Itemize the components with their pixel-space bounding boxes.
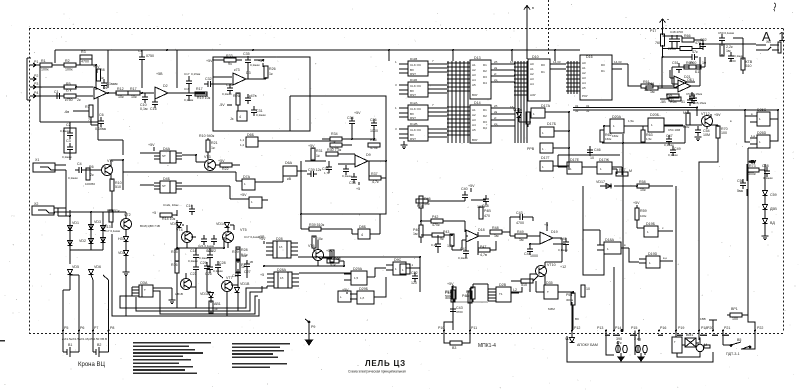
IC D6A (283, 161, 297, 181)
svg-text:С49: С49 (674, 147, 681, 151)
IC D6B (238, 133, 268, 147)
svg-text:D12А: D12А (410, 101, 418, 105)
svg-text:R16: R16 (171, 263, 178, 267)
svg-text:1ВВ: 1ВВ (700, 317, 706, 321)
svg-text:1,5: 1,5 (354, 276, 359, 280)
wires C40 cluster (428, 200, 486, 201)
svg-text:0,1мкм: 0,1мкм (250, 63, 260, 67)
svg-text:1,7к: 1,7к (324, 171, 330, 175)
IC D19D (639, 252, 668, 268)
resistor R11 (107, 209, 120, 222)
extra value labels (175, 59, 732, 321)
svg-text:1,б: 1,б (360, 296, 365, 300)
IC D17B (540, 122, 557, 137)
resistor R16 (171, 261, 179, 273)
cap C44 (524, 245, 538, 258)
svg-text:D17Г: D17Г (541, 156, 550, 160)
IC D29B (350, 287, 382, 304)
svg-text:С12в, 10мк ...: С12в, 10мк ... (163, 203, 182, 207)
cap C31 (251, 106, 266, 117)
svg-text:2200: 2200 (729, 59, 736, 63)
connector X1 bracket (27, 58, 31, 100)
svg-text:А4: А4 (530, 82, 534, 86)
svg-text:2б: 2б (494, 104, 498, 108)
resistor R12 10k (116, 87, 128, 99)
svg-text:7: 7 (432, 103, 434, 107)
resistor R48 (490, 226, 502, 238)
svg-text:4700: 4700 (456, 310, 463, 314)
svg-text:-5V: -5V (219, 103, 225, 107)
wires R34 area (268, 127, 374, 145)
svg-text:ВСИ(1)ВХ Г1В: ВСИ(1)ВХ Г1В (140, 224, 160, 228)
resistor R40m vertical (413, 225, 423, 237)
capacitor C4 (68, 162, 85, 180)
svg-text:А2: А2 (472, 113, 476, 117)
IC D33 (139, 281, 153, 297)
resistor R38 vertical (330, 250, 341, 262)
svg-text:АЗУ: АЗУ (530, 93, 536, 97)
wire to D2 (140, 92, 154, 94)
resistor R19b (195, 87, 211, 100)
svg-text:1: 1 (759, 140, 761, 144)
svg-text:D26С: D26С (757, 108, 767, 112)
cap C53t (689, 98, 699, 104)
IC D29A (344, 267, 375, 285)
-5V stub (219, 103, 232, 107)
cap C39 (307, 168, 322, 177)
resistor R4 (64, 94, 81, 102)
svg-text:D28А: D28А (277, 268, 287, 272)
+5V (354, 111, 361, 115)
svg-text:R66: R66 (684, 34, 691, 38)
diode stack VD20-VD23 (763, 191, 777, 198)
wires top-right cluster (663, 29, 757, 75)
svg-text:+5: +5 (356, 187, 360, 191)
cap C35 (243, 52, 260, 67)
svg-text:P5: P5 (64, 326, 68, 330)
svg-text:D6Б: D6Б (247, 133, 255, 137)
svg-text:С2в: С2в (232, 274, 239, 278)
IC D20B (648, 113, 664, 132)
svg-text:D1: D1 (601, 69, 605, 73)
svg-text:0,1мкм: 0,1мкм (213, 269, 223, 273)
resistor R10 510 (110, 179, 122, 191)
wires G10 (262, 171, 380, 258)
pin P3 (30, 82, 38, 89)
svg-text:D11Б: D11Б (410, 78, 417, 82)
svg-text:R48: R48 (492, 226, 499, 230)
svg-text:Р4В: Р4В (484, 209, 491, 213)
parts list middle (232, 343, 290, 368)
wires D21 (660, 67, 700, 99)
svg-text:P6: P6 (80, 326, 84, 330)
svg-text:SТ: SТ (162, 154, 166, 158)
svg-text:0,1мкм: 0,1мкм (68, 176, 78, 180)
svg-text:D1: D1 (103, 86, 108, 90)
svg-text:VT2: VT2 (124, 213, 131, 217)
svg-text:1: 1 (251, 200, 253, 204)
svg-text:4,7в: 4,7в (480, 253, 487, 257)
svg-text:С48 4700: С48 4700 (670, 30, 683, 34)
transistor VT3 (204, 155, 225, 171)
transistor VT12 (701, 112, 721, 127)
IC D28A (273, 237, 291, 258)
svg-text:1: 1 (533, 112, 535, 116)
electrolytic pair C14 (634, 331, 647, 362)
svg-text:31: 31 (586, 104, 590, 108)
cap C53h (688, 54, 698, 60)
svg-text:+5В: +5В (156, 72, 163, 76)
op-amp D3 (233, 68, 266, 85)
wire R2 to opamp (76, 64, 96, 66)
svg-text:D19Б: D19Б (646, 222, 656, 226)
IC D11A (408, 57, 428, 76)
resistor R30 (326, 148, 342, 156)
transistor VT2 (121, 213, 132, 230)
cap C43b (450, 305, 463, 315)
svg-text:А0: А0 (530, 62, 534, 66)
resistor R65 vertical (655, 34, 665, 46)
svg-text:1: 1 (600, 167, 602, 171)
svg-text:С22: С22 (411, 271, 418, 275)
resistor R43 (432, 230, 449, 241)
svg-text:ПДТ-3-1: ПДТ-3-1 (726, 352, 740, 356)
op-amp D2 (155, 84, 205, 99)
svg-text:А1: А1 (472, 63, 476, 67)
svg-text:С5З В,1бмк: С5З В,1бмк (686, 92, 703, 96)
svg-text:А3: А3 (472, 118, 476, 122)
cursive mark top right (774, 3, 776, 11)
svg-text:Т: Т (144, 288, 146, 292)
svg-text:1м: 1м (650, 90, 655, 94)
wire P3 run (36, 86, 65, 88)
svg-text:ВМ1: ВМ1 (686, 333, 693, 337)
svg-text:Р9: Р9 (311, 325, 315, 329)
capacitor box C2 C3 (60, 123, 76, 159)
svg-text:D1: D1 (541, 70, 545, 74)
resistor R56 (581, 285, 590, 297)
svg-text:5,1к: 5,1к (241, 253, 248, 257)
long bus wire top (177, 50, 580, 61)
svg-text:14,33: 14,33 (614, 60, 622, 64)
svg-text:С17: С17 (184, 72, 190, 76)
cap C27 (244, 260, 251, 274)
resistor R17 10k (128, 87, 140, 99)
cap C35b (342, 165, 352, 178)
svg-text:R14 10к: R14 10к (162, 217, 176, 221)
diode VD6 (89, 265, 102, 275)
svg-text:А3: А3 (582, 76, 586, 80)
svg-text:1: 1 (402, 268, 404, 272)
IC D12B (408, 122, 428, 141)
diode VD16 (513, 108, 522, 118)
cap C41b (431, 240, 441, 250)
svg-text:1,5в: 1,5в (628, 119, 634, 123)
svg-text:R31: R31 (316, 149, 323, 153)
svg-text:+5V: +5V (468, 184, 475, 188)
wire P1 to R1 (36, 64, 40, 66)
transistor VT4 (176, 228, 193, 243)
resistor 2BB (704, 345, 710, 348)
svg-text:ОБ1: ОБ1 (687, 78, 694, 82)
ground under D12B (401, 141, 408, 149)
cap C17r chain (184, 72, 201, 102)
svg-text:R37: R37 (371, 172, 378, 176)
svg-text:А5: А5 (472, 128, 476, 132)
svg-text:120: 120 (411, 281, 417, 285)
IC D17F (597, 158, 612, 174)
cap C34 (347, 116, 355, 127)
wire R70 down-left (699, 138, 718, 330)
svg-text:В2: В2 (97, 343, 101, 347)
svg-text:1к: 1к (269, 72, 273, 76)
diode VD14 (216, 222, 230, 228)
cap C29 (200, 261, 210, 272)
svg-text:VТ10: VТ10 (547, 263, 556, 267)
svg-text:с: с (662, 226, 664, 230)
svg-text:VD18: VD18 (200, 292, 209, 296)
svg-text:Т1: Т1 (499, 292, 503, 296)
svg-text:фХ1.5мХ1.5мХ1.МрУР2.50 ХВ.В: фХ1.5мХ1.5мХ1.МрУР2.50 ХВ.В (62, 337, 107, 341)
svg-text:С35: С35 (243, 52, 250, 56)
cap C25 (211, 235, 217, 245)
cap C26 (205, 263, 213, 276)
svg-text:D28: D28 (276, 237, 283, 241)
svg-text:D0: D0 (541, 63, 545, 67)
vertical P10 (444, 285, 453, 331)
svg-text:10к: 10к (131, 95, 137, 99)
svg-text:R3: R3 (81, 50, 86, 54)
svg-text:1м: 1м (726, 49, 731, 53)
wires D17 chain (519, 108, 569, 170)
svg-text:+5V: +5V (218, 159, 225, 163)
svg-text:D1: D1 (483, 63, 487, 67)
svg-text:R19: R19 (232, 250, 239, 254)
capacitor C10 (140, 93, 148, 111)
wires D18-D19 (502, 217, 562, 246)
svg-text:100: 100 (721, 131, 727, 135)
svg-text:Jз: Jз (230, 117, 234, 121)
+5V stub29 (342, 288, 349, 294)
svg-text:Х2: Х2 (34, 202, 38, 206)
IC D12A (408, 101, 428, 120)
svg-text:D3: D3 (483, 75, 487, 79)
svg-text:R15: R15 (171, 250, 178, 254)
D13 outputs (491, 64, 515, 82)
wires to battery pins (63, 275, 109, 330)
svg-text:С59: С59 (770, 193, 777, 197)
cap C18 (188, 249, 199, 263)
op-amp D18 (466, 228, 490, 242)
svg-text:С1: С1 (54, 90, 59, 94)
svg-text:Д5В: Д5В (770, 207, 777, 211)
svg-text:470к: 470к (370, 146, 378, 150)
IC D32 right (386, 258, 420, 275)
IC D4B (160, 177, 176, 193)
resistor R73 (747, 164, 759, 176)
vertical P22 wire (741, 148, 763, 349)
resistor R19 (232, 249, 247, 261)
wires X2 to matrix (58, 196, 112, 256)
diode VD5 (68, 265, 80, 275)
svg-text:1б: 1б (280, 276, 284, 280)
C40 cluster (461, 184, 475, 201)
svg-text:D29А: D29А (353, 267, 363, 271)
svg-text:D13: D13 (474, 56, 481, 60)
svg-text:4: 4 (361, 233, 363, 237)
svg-text:VT5: VT5 (240, 228, 247, 232)
cap C32 (204, 77, 214, 87)
verticals to nest (177, 273, 238, 311)
cap C23 (190, 263, 199, 276)
wire R1-R2 (52, 64, 64, 66)
svg-text:VD2: VD2 (79, 239, 86, 243)
svg-text:P14: P14 (615, 326, 621, 330)
svg-text:510: 510 (115, 185, 121, 189)
svg-text:А3: А3 (472, 73, 476, 77)
svg-text:32: 32 (586, 109, 590, 113)
svg-text:R22: R22 (222, 167, 229, 171)
svg-text:10к: 10к (640, 188, 646, 192)
svg-text:2в: 2в (494, 66, 498, 70)
IC D20A (610, 115, 624, 133)
svg-text:М: М (629, 169, 632, 173)
svg-text:+12: +12 (560, 265, 566, 269)
+5V R33 (206, 54, 236, 66)
IC D10 (528, 55, 550, 101)
resistor R61h (641, 80, 653, 92)
svg-text:А5: А5 (472, 83, 476, 87)
svg-text:D1: D1 (483, 108, 487, 112)
bus hatch 1 (447, 61, 470, 143)
svg-text:R59: R59 (640, 209, 647, 213)
svg-text:P15: P15 (631, 326, 637, 330)
svg-text:0,1бмк: 0,1бмк (191, 72, 201, 76)
svg-text:+5V: +5V (308, 144, 315, 148)
resistor BP1 (727, 307, 748, 321)
bottom bus nested wires (112, 234, 259, 316)
resistor R68 (680, 47, 698, 55)
nested bus risers (246, 286, 267, 303)
svg-text:R33: R33 (226, 54, 233, 58)
svg-text:P10: P10 (438, 326, 444, 330)
bus wires 31 32 (573, 104, 778, 141)
svg-text:VD17: VD17 (596, 180, 605, 184)
svg-text:R28: R28 (241, 248, 248, 252)
svg-text:P2: P2 (34, 74, 38, 78)
cap C22 (411, 271, 418, 285)
svg-text:VD1В: VD1В (240, 282, 250, 286)
cap C2v (232, 269, 241, 279)
svg-text:ВЗ: ВЗ (575, 317, 579, 321)
svg-text:+5V: +5V (206, 59, 213, 63)
svg-text:P3: P3 (34, 82, 38, 86)
wires VT1 (98, 140, 123, 196)
cap C20 (206, 249, 213, 261)
speaker circle (696, 331, 707, 352)
vertical P14 long (621, 134, 623, 332)
wires right column (747, 160, 765, 236)
jack X2 (32, 202, 66, 215)
resistor R70 510 (741, 58, 753, 70)
resistor R44 (445, 290, 455, 302)
resistor R8 vertical (97, 68, 105, 81)
IC D7B (240, 193, 262, 208)
cap C46 (587, 146, 601, 160)
IC D35 (544, 281, 558, 299)
svg-text:RST: RST (410, 93, 416, 97)
svg-text:9к: 9к (440, 237, 444, 241)
wires C13/C14 (606, 331, 645, 356)
svg-text:Б1: Б1 (695, 70, 699, 74)
wires logic col (583, 169, 673, 275)
svg-text:47к: 47к (692, 50, 698, 54)
wire opamp down (91, 98, 98, 140)
+5V stub right (258, 235, 265, 239)
svg-text:1,1: 1,1 (240, 138, 245, 142)
+5V stub (148, 143, 155, 151)
svg-text:С28: С28 (219, 261, 226, 265)
svg-text:D0: D0 (601, 63, 605, 67)
+5V stub (259, 237, 266, 244)
resistor R46 vertical (419, 196, 431, 208)
resistor R10 label (199, 134, 215, 138)
+5V R31 (308, 144, 323, 160)
wires D7 (230, 172, 268, 200)
svg-text:Крона ВЦ: Крона ВЦ (78, 362, 105, 368)
svg-text:А0: А0 (582, 61, 586, 65)
resistor R66 (682, 34, 701, 45)
wires VT10/D34 (511, 274, 545, 292)
svg-text:R30 7,5к: R30 7,5к (327, 148, 342, 152)
svg-text:-5В: -5В (660, 100, 666, 104)
wires D26 right (664, 110, 778, 142)
cap C50 (718, 31, 734, 44)
svg-text:510: 510 (521, 283, 527, 287)
resistor R14 (152, 211, 176, 221)
svg-text:Т: Т (547, 290, 549, 294)
wires VT9 region (454, 244, 562, 302)
wires D3 block (195, 60, 266, 111)
long wires cluster (264, 236, 420, 273)
svg-text:0,1мкм: 0,1мкм (342, 174, 352, 178)
svg-text:+5V: +5V (749, 160, 756, 164)
svg-text:1: 1 (244, 182, 246, 186)
svg-text:АПОКУ БАМ: АПОКУ БАМ (577, 343, 598, 347)
svg-text:D26D: D26D (757, 131, 767, 135)
resistor R5 (64, 82, 76, 93)
svg-text:D16: D16 (586, 55, 593, 59)
jack X1 (33, 158, 66, 172)
svg-text:0,1мкм: 0,1мкм (199, 256, 209, 260)
svg-text:НВ1В: НВ1В (175, 292, 183, 296)
wires D31 (644, 44, 705, 88)
svg-text:300м: 300м (566, 298, 573, 302)
svg-text:1м: 1м (413, 232, 418, 236)
svg-text:а, 1В: а, 1В (246, 260, 253, 264)
svg-text:D2: D2 (483, 69, 487, 73)
+5 and R59 (633, 201, 647, 220)
svg-text:100: 100 (732, 317, 738, 321)
ground D33 (153, 288, 176, 304)
resistor R26c vertical (236, 247, 248, 259)
fold line top (548, 0, 550, 55)
D14 outputs (491, 108, 515, 126)
svg-text:10к: 10к (118, 95, 124, 99)
svg-text:А4: А4 (582, 81, 586, 85)
resistor R7 vertical (85, 105, 93, 122)
svg-text:ОЗА: ОЗА (140, 281, 148, 285)
